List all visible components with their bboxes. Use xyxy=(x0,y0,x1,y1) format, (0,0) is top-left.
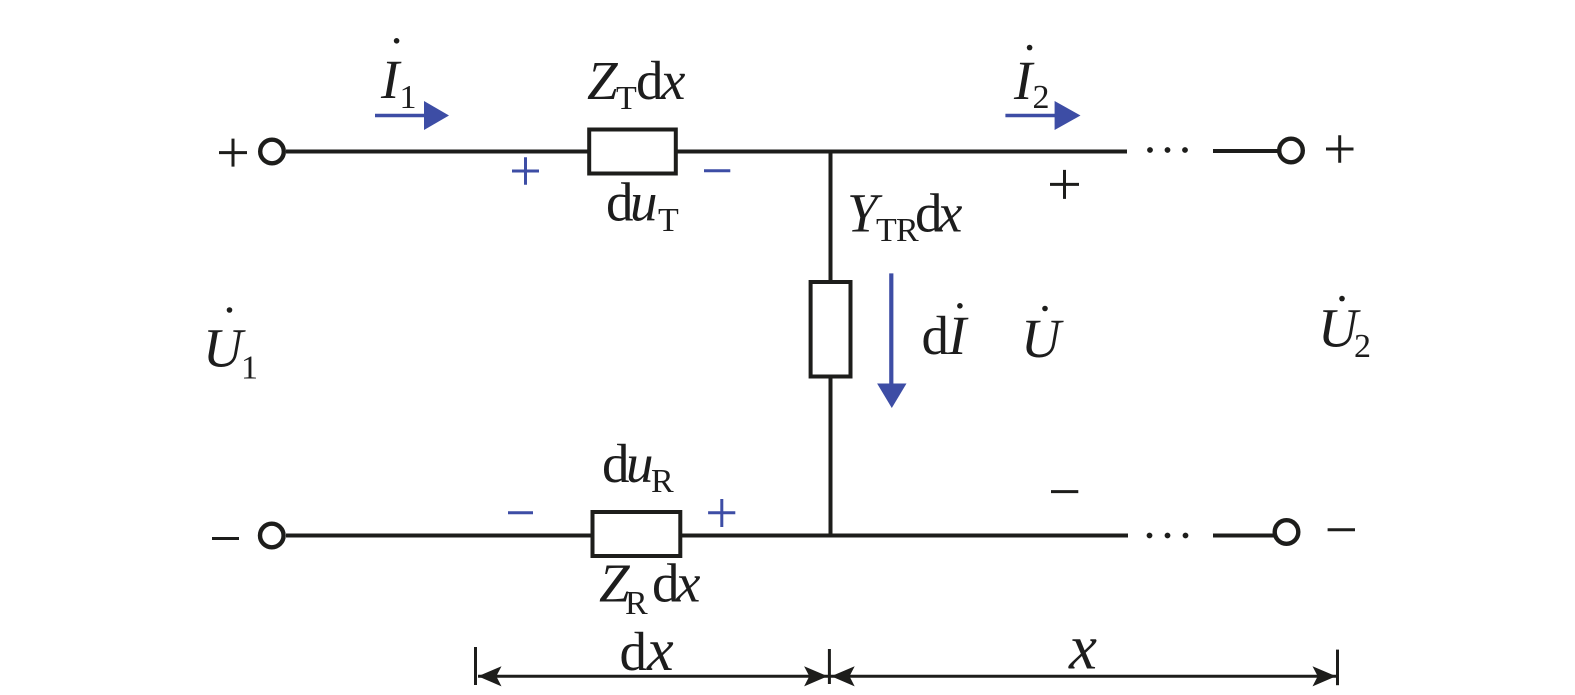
dimension tick right xyxy=(1336,650,1339,686)
label duR voltage drop xyxy=(602,433,674,500)
svg-text:d: d xyxy=(620,621,648,682)
svg-text:x: x xyxy=(646,617,674,683)
dimension tick left xyxy=(474,647,477,685)
blue minus left of ZR box xyxy=(508,511,533,514)
arrow I1 direction (blue) xyxy=(375,101,449,130)
svg-text:T: T xyxy=(616,80,637,117)
arrow dI shunt current (blue) xyxy=(877,273,906,408)
blue minus right of ZT box xyxy=(704,169,730,172)
plus sign top-left terminal polarity xyxy=(219,139,247,167)
label I2 current xyxy=(1013,45,1050,116)
wire shunt vertical lower xyxy=(829,376,833,536)
svg-text:x: x xyxy=(937,182,963,243)
terminal circle bottom-right xyxy=(1275,520,1299,544)
svg-text:R: R xyxy=(651,463,674,500)
dimension arrowhead left (points left) xyxy=(478,666,502,686)
dimension arrowhead mid-left (points right) xyxy=(804,666,828,686)
label U1 voltage left xyxy=(203,307,258,386)
svg-text:u: u xyxy=(630,172,658,233)
admittance YTR box (shunt element) xyxy=(811,282,851,377)
dimension arrowhead right (points right) xyxy=(1313,666,1337,686)
svg-text:2: 2 xyxy=(1354,328,1371,365)
wire top rail left segment xyxy=(286,150,589,154)
svg-text:x: x xyxy=(1068,613,1097,683)
arrow I2 direction (blue) xyxy=(1005,101,1080,130)
svg-text:1: 1 xyxy=(400,79,417,116)
wire top rail stub to right terminal xyxy=(1213,149,1279,153)
label U2 voltage right xyxy=(1318,296,1371,365)
terminal circle bottom-left xyxy=(260,524,284,548)
wire bottom rail left segment xyxy=(286,534,593,538)
svg-text:u: u xyxy=(626,433,654,494)
wire bottom rail stub to right terminal xyxy=(1213,534,1274,538)
wire shunt vertical upper xyxy=(829,152,833,284)
label ZRdx impedance value xyxy=(599,552,701,621)
minus sign bottom-left terminal polarity xyxy=(212,537,239,540)
dimension tick middle xyxy=(828,649,831,684)
black minus above bottom rail right xyxy=(1051,490,1078,493)
blue plus left of ZT box xyxy=(512,157,539,185)
svg-text:R: R xyxy=(625,585,648,622)
svg-text:1: 1 xyxy=(241,350,258,387)
label dx segment length xyxy=(620,617,675,683)
svg-text:U: U xyxy=(1021,308,1064,369)
wire top rail right segment xyxy=(676,150,1127,154)
label U node voltage xyxy=(1021,306,1064,369)
dimension line baseline xyxy=(478,675,1336,678)
svg-text:U: U xyxy=(203,318,246,379)
wire bottom rail right segment xyxy=(680,534,1128,538)
label ZTdx impedance value xyxy=(587,50,686,117)
label YTRdx shunt admittance xyxy=(847,182,963,249)
minus sign bottom-right terminal polarity xyxy=(1328,528,1355,531)
svg-text:d: d xyxy=(922,305,950,366)
resistor ZR box (bottom series impedance) xyxy=(593,512,681,556)
ellipsis dots bottom rail xyxy=(1147,533,1189,539)
svg-text:T: T xyxy=(876,212,897,249)
terminal circle top-left xyxy=(260,140,284,164)
svg-text:2: 2 xyxy=(1033,79,1050,116)
label I1 current xyxy=(380,38,417,116)
svg-text:I: I xyxy=(947,305,969,366)
label duT voltage drop xyxy=(606,172,679,240)
dimension arrowhead mid-right (points left) xyxy=(831,666,855,686)
blue plus right of ZR box xyxy=(708,499,735,527)
svg-text:d: d xyxy=(636,50,664,111)
terminal circle top-right xyxy=(1279,139,1303,163)
svg-text:Z: Z xyxy=(587,50,619,111)
svg-text:T: T xyxy=(658,202,679,239)
label dI differential current xyxy=(922,303,970,366)
ellipsis dots top rail xyxy=(1147,147,1188,153)
plus sign top-right terminal polarity xyxy=(1326,135,1354,163)
black plus under top rail right xyxy=(1050,170,1079,199)
resistor ZT box (top series impedance) xyxy=(589,130,676,174)
svg-text:x: x xyxy=(660,50,686,111)
svg-text:x: x xyxy=(675,552,701,613)
